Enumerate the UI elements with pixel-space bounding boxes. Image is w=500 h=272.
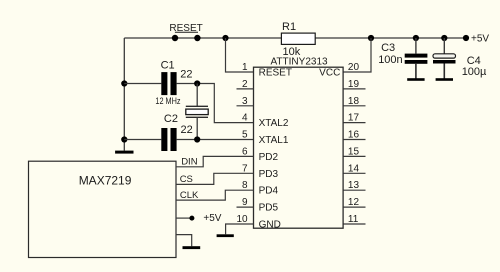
node +5V supply terminal bbox=[463, 35, 469, 41]
svg-text:16: 16 bbox=[348, 130, 360, 141]
svg-text:2: 2 bbox=[242, 79, 248, 90]
node junction C4 bbox=[441, 35, 447, 41]
svg-text:100n: 100n bbox=[378, 54, 402, 66]
wire +5V rail left segment bbox=[124, 37, 281, 39]
svg-text:DIN: DIN bbox=[181, 156, 198, 167]
node junction C1 left bbox=[121, 80, 127, 86]
ground U1 pin 10 bbox=[217, 234, 234, 237]
pin 15 stub bbox=[344, 155, 366, 157]
svg-text:100µ: 100µ bbox=[462, 66, 487, 78]
wire rail to U1 pin 20 VCC bbox=[344, 38, 372, 72]
svg-text:PD5: PD5 bbox=[259, 203, 279, 214]
svg-text:C1: C1 bbox=[161, 60, 175, 72]
resistor R1 bbox=[281, 33, 315, 44]
wire CS to U1 pin 7 PD3 bbox=[176, 173, 254, 184]
svg-text:19: 19 bbox=[348, 79, 360, 90]
node reset header pin A bbox=[172, 35, 178, 41]
wire U2 ground bbox=[176, 235, 192, 247]
svg-text:12 MHz: 12 MHz bbox=[155, 96, 181, 106]
ground C4 bbox=[436, 78, 453, 81]
capacitor C3 bbox=[415, 38, 417, 54]
wire rail to U1 pin 1 RESET bbox=[226, 38, 254, 72]
svg-text:R1: R1 bbox=[282, 21, 296, 33]
ground left column bbox=[115, 151, 133, 154]
capacitor C2 bbox=[161, 128, 167, 151]
svg-text:8: 8 bbox=[242, 180, 248, 191]
ground C3 bbox=[407, 78, 424, 81]
wire U2 supply bbox=[176, 217, 190, 219]
pin 9 stub bbox=[237, 206, 254, 208]
wire CLK to U1 pin 8 PD4 bbox=[176, 190, 254, 200]
svg-text:12: 12 bbox=[348, 197, 360, 208]
node junction crystal bottom bbox=[194, 136, 200, 142]
capacitor C4 electrolytic bbox=[443, 38, 445, 54]
node reset header pin B bbox=[194, 35, 200, 41]
svg-text:RESET: RESET bbox=[259, 68, 292, 79]
wire C2 left bbox=[124, 139, 161, 141]
svg-text:VCC: VCC bbox=[319, 68, 340, 79]
wire C1 left bbox=[124, 83, 161, 85]
svg-text:7: 7 bbox=[242, 163, 248, 174]
svg-text:XTAL1: XTAL1 bbox=[259, 135, 289, 146]
svg-text:5: 5 bbox=[242, 130, 248, 141]
wire left column vertical bbox=[123, 38, 125, 151]
svg-text:CLK: CLK bbox=[180, 190, 199, 201]
svg-text:MAX7219: MAX7219 bbox=[79, 173, 132, 187]
svg-text:C2: C2 bbox=[164, 113, 178, 125]
pin 18 stub bbox=[344, 105, 366, 107]
svg-text:CS: CS bbox=[180, 174, 193, 185]
node +5V terminal U2 bbox=[189, 216, 194, 221]
node junction C2 left bbox=[121, 136, 127, 142]
pin 2 stub bbox=[237, 88, 254, 90]
wire C1 right to U1 pin 4 XTAL2 bbox=[177, 84, 254, 123]
svg-text:22: 22 bbox=[180, 69, 192, 81]
pin 14 stub bbox=[344, 172, 366, 174]
svg-text:+5V: +5V bbox=[471, 34, 489, 45]
capacitor C1 bbox=[161, 72, 167, 95]
svg-text:9: 9 bbox=[242, 197, 248, 208]
node junction crystal top bbox=[194, 80, 200, 86]
node junction rail to U1 pin 1 bbox=[222, 35, 228, 41]
svg-text:6: 6 bbox=[242, 146, 248, 157]
svg-text:3: 3 bbox=[242, 96, 248, 107]
svg-text:C4: C4 bbox=[467, 55, 481, 67]
svg-text:PD4: PD4 bbox=[259, 186, 279, 197]
svg-text:11: 11 bbox=[348, 214, 359, 225]
svg-text:20: 20 bbox=[348, 62, 360, 73]
svg-text:4: 4 bbox=[242, 113, 248, 124]
svg-text:22: 22 bbox=[181, 124, 193, 136]
wire U1 pin 10 GND to ground bbox=[226, 224, 254, 234]
svg-text:10: 10 bbox=[236, 214, 248, 225]
svg-text:XTAL2: XTAL2 bbox=[259, 118, 289, 129]
svg-text:14: 14 bbox=[348, 163, 360, 174]
svg-text:15: 15 bbox=[348, 146, 360, 157]
svg-text:PD2: PD2 bbox=[259, 152, 279, 163]
wire +5V rail right segment bbox=[315, 37, 466, 39]
pin 19 stub bbox=[344, 88, 366, 90]
pin 13 stub bbox=[344, 189, 366, 191]
svg-text:C3: C3 bbox=[381, 42, 395, 54]
svg-text:13: 13 bbox=[348, 180, 360, 191]
pin 17 stub bbox=[344, 122, 366, 124]
pin 16 stub bbox=[344, 139, 366, 141]
svg-text:PD3: PD3 bbox=[259, 169, 279, 180]
IC U2 MAX7219 body bbox=[29, 161, 177, 257]
pin 12 stub bbox=[344, 206, 366, 208]
wire DIN to U1 pin 6 PD2 bbox=[176, 156, 254, 166]
node junction rail to U1 pin 20 bbox=[368, 35, 374, 41]
IC U1 ATTINY2313 body bbox=[254, 67, 344, 228]
pin 11 stub bbox=[344, 223, 366, 225]
svg-text:18: 18 bbox=[348, 96, 360, 107]
svg-text:GND: GND bbox=[259, 220, 281, 231]
svg-text:+5V: +5V bbox=[203, 213, 221, 224]
pin 3 stub bbox=[237, 105, 254, 107]
ground U2 bbox=[183, 246, 201, 249]
node junction C3 bbox=[413, 35, 419, 41]
wire C2 right to U1 pin 5 XTAL1 bbox=[177, 139, 254, 141]
svg-text:17: 17 bbox=[348, 113, 360, 124]
svg-text:1: 1 bbox=[242, 62, 248, 73]
svg-text:ATTINY2313: ATTINY2313 bbox=[271, 57, 328, 68]
crystal Q1 bbox=[196, 84, 198, 107]
